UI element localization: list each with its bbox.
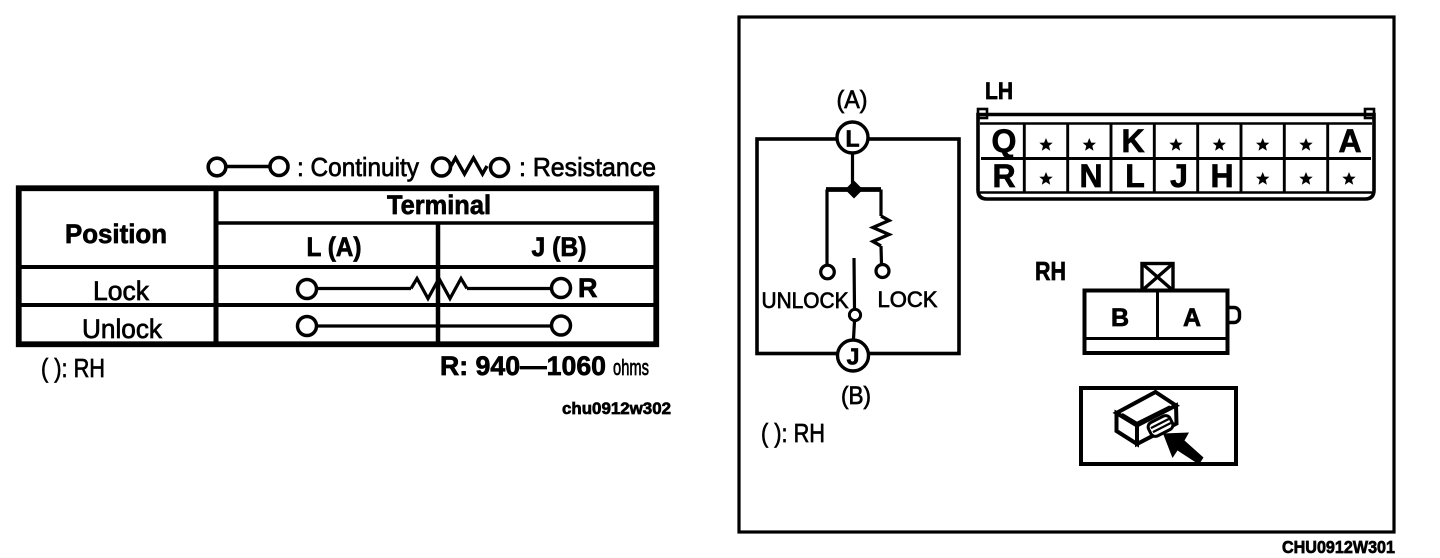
svg-text:J: J — [847, 344, 860, 370]
svg-text:J (B): J (B) — [532, 232, 587, 262]
terminal circle L — [837, 122, 868, 153]
svg-text:R: 940—1060: R: 940—1060 — [440, 351, 606, 381]
wire junction bar — [826, 187, 881, 192]
svg-text:: Continuity: : Continuity — [297, 152, 419, 182]
LH connector shell — [978, 109, 1374, 199]
3d connector left face — [1117, 413, 1138, 444]
svg-text:CHU0912W301: CHU0912W301 — [1282, 537, 1395, 557]
svg-text:(A): (A) — [837, 86, 868, 114]
LH pin stars row 1 — [1039, 138, 1312, 151]
RH connector side tab — [1230, 308, 1240, 323]
LH connector grid — [981, 124, 1371, 192]
svg-text:L: L — [1125, 158, 1145, 194]
svg-text:K: K — [1121, 123, 1144, 159]
Lock row wire with resistor — [298, 279, 571, 299]
switch pole circle — [849, 309, 860, 320]
svg-text:Terminal: Terminal — [387, 190, 491, 220]
svg-text:chu0912w302: chu0912w302 — [562, 399, 671, 418]
wire lock branch upper — [879, 190, 882, 217]
3d connector right face — [1137, 406, 1177, 445]
contact circle unlock — [821, 265, 835, 279]
right panel frame — [739, 17, 1394, 532]
Unlock row wire — [298, 316, 571, 336]
RH connector body — [1085, 291, 1228, 354]
LH pin letters row 2 — [992, 158, 1233, 194]
svg-text:N: N — [1079, 158, 1102, 194]
3d connector top face inner line — [1122, 407, 1170, 424]
wire L to junction — [851, 153, 854, 184]
svg-text:UNLOCK: UNLOCK — [762, 288, 849, 313]
junction dot — [845, 181, 863, 199]
3d connector top face — [1117, 392, 1177, 426]
svg-text:LH: LH — [985, 78, 1013, 105]
LH pin stars row 2 — [1039, 172, 1355, 185]
svg-text:A: A — [1338, 123, 1361, 159]
switch pole wire — [852, 258, 856, 309]
LH pin letters row 1 — [992, 123, 1362, 159]
wire lock branch lower — [879, 246, 883, 265]
svg-text:L (A): L (A) — [307, 232, 362, 262]
svg-text:Position: Position — [65, 219, 167, 249]
svg-text:RH: RH — [1035, 256, 1066, 286]
circuit box wires — [757, 139, 959, 354]
wire pole to J — [854, 321, 855, 339]
svg-text:B: B — [1111, 304, 1129, 332]
svg-text:ohms: ohms — [613, 355, 649, 380]
3d connector socket — [1146, 414, 1174, 438]
svg-text:Lock: Lock — [93, 276, 149, 306]
svg-text:L: L — [845, 126, 859, 152]
svg-text:Unlock: Unlock — [82, 314, 162, 344]
RH connector lock tab — [1142, 264, 1173, 291]
resistor in lock branch — [873, 216, 889, 246]
pointer arrow — [1163, 433, 1204, 465]
svg-text:Q: Q — [992, 123, 1017, 159]
contact circle lock — [876, 265, 889, 278]
table frame — [19, 188, 657, 345]
svg-text:( ): RH: ( ): RH — [761, 418, 825, 448]
svg-text:LOCK: LOCK — [878, 287, 938, 312]
legend continuity symbol — [208, 158, 288, 176]
svg-text:(B): (B) — [841, 382, 871, 410]
svg-text:A: A — [1183, 304, 1201, 332]
svg-text:J: J — [1170, 158, 1188, 194]
svg-text:R: R — [578, 273, 598, 303]
inset icon box — [1081, 388, 1236, 464]
wire unlock branch — [825, 190, 828, 266]
svg-text:R: R — [992, 158, 1015, 194]
legend resistance symbol — [433, 158, 509, 177]
svg-text:H: H — [1210, 158, 1233, 194]
terminal circle J — [838, 340, 869, 371]
svg-text:( ): RH: ( ): RH — [41, 353, 105, 383]
svg-text:: Resistance: : Resistance — [519, 152, 656, 182]
